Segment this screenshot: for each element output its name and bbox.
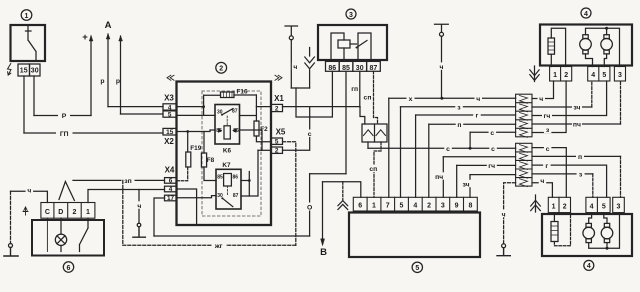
wire: pin4 riser bbox=[415, 115, 417, 197]
relay 3 pin 30 bbox=[353, 61, 367, 71]
svg-text:8: 8 bbox=[468, 202, 472, 209]
svg-text:C: C bbox=[45, 209, 50, 216]
unit 6 pin C internal stub bbox=[46, 218, 48, 251]
terminal T right bbox=[435, 24, 449, 32]
wire: horizontal to ground chevron bbox=[291, 87, 309, 89]
connector X4 pin 17 bbox=[165, 195, 177, 201]
wire: terminal down bbox=[290, 40, 292, 88]
svg-text:4: 4 bbox=[413, 202, 417, 209]
svg-text:р: р bbox=[116, 78, 120, 85]
connector X5 pin 5 bbox=[271, 138, 283, 144]
wire x-line: pin7 to upper stack bbox=[389, 97, 516, 99]
wire: F8 bottom to K7.85 bbox=[204, 167, 216, 181]
wire zhg line bbox=[123, 244, 296, 246]
svg-text:2: 2 bbox=[563, 203, 567, 210]
wire: lower stack cell1 to mirror2 pin 2 bbox=[532, 148, 566, 198]
svg-text:+: + bbox=[82, 32, 88, 43]
upper door connector stack bbox=[516, 94, 532, 137]
connector X3 pin 4 bbox=[163, 104, 177, 110]
fuse F2 bbox=[254, 121, 259, 136]
wire GP: to connector X2 pin 15 bbox=[24, 132, 163, 134]
wire: riser F16/X1.2/K6.87/F2 bbox=[255, 95, 257, 121]
wire: resistor top loop to pin 2 bbox=[551, 28, 565, 66]
svg-text:сп: сп bbox=[364, 94, 372, 101]
svg-text:х: х bbox=[409, 96, 413, 103]
wire: X3.5 to K6.30 bbox=[177, 114, 216, 116]
wire s-line upper branch bbox=[470, 131, 515, 133]
mirror unit 4 bottom body bbox=[542, 214, 632, 256]
wire: upper stack cell4 to mirror pin 3 bbox=[532, 123, 621, 125]
label ch on terminal wire bbox=[292, 62, 299, 69]
wire: pin8 line to lower stack bbox=[470, 174, 516, 176]
svg-text:F16: F16 bbox=[236, 88, 247, 95]
wire zhg riser from zp wire bbox=[122, 180, 124, 245]
wire: motor B bottom to pin 5 bbox=[604, 54, 606, 67]
svg-text:6: 6 bbox=[169, 178, 173, 185]
svg-text:5: 5 bbox=[168, 112, 172, 119]
svg-text:п: п bbox=[578, 154, 582, 161]
svg-text:зч: зч bbox=[573, 105, 580, 112]
wire: motor A top to pin 4 bbox=[589, 213, 592, 224]
unit 6 pin row C D 2 1 bbox=[41, 203, 95, 219]
svg-text:1: 1 bbox=[86, 209, 90, 216]
relay 3 contact blade bbox=[357, 41, 368, 48]
relay 3 coil bbox=[338, 40, 350, 48]
fuse F8 bbox=[201, 153, 206, 167]
svg-text:пч: пч bbox=[573, 122, 581, 129]
svg-text:ч: ч bbox=[137, 203, 141, 210]
svg-text:пч: пч bbox=[435, 174, 443, 181]
svg-text:4: 4 bbox=[584, 11, 588, 18]
wire: F19 bottom to X4.6 internal bbox=[177, 167, 188, 181]
svg-text:4: 4 bbox=[169, 186, 173, 193]
ignition switch unit 1: circled label bbox=[21, 10, 32, 21]
wire: F2 bottom to X5.5 bbox=[256, 136, 271, 142]
wire: bottom bus to pin 3 bbox=[589, 213, 620, 249]
svg-text:5: 5 bbox=[275, 139, 279, 146]
svg-text:с: с bbox=[308, 131, 312, 138]
relay K7 body bbox=[216, 169, 241, 209]
wire: bus tap to F19 top bbox=[187, 132, 189, 153]
relay K6 body bbox=[215, 105, 240, 145]
wire arrow r up from X3.5 bbox=[120, 36, 122, 114]
wire: pin5 riser bbox=[400, 107, 402, 198]
wire: X1.2 internal bbox=[256, 106, 271, 108]
terminal T left bbox=[285, 26, 298, 36]
wire: upper stack cell5 to mirror pin 2 bbox=[532, 81, 566, 133]
svg-text:X4: X4 bbox=[165, 166, 175, 175]
unit 6 lamp bbox=[55, 234, 66, 245]
wire: X3.4 to F16 riser bbox=[177, 106, 204, 108]
terminal arrow symbol left of pins bbox=[8, 64, 12, 76]
wire: K7.86 out to dot bbox=[241, 180, 249, 182]
wire: pin3 line to lower stack bbox=[443, 156, 515, 158]
wire R: pin 30 to + arrow bbox=[34, 115, 91, 117]
svg-text:5: 5 bbox=[415, 265, 419, 272]
connector X4 pin 6 bbox=[165, 178, 177, 184]
relay 3 pin 86 bbox=[326, 61, 340, 71]
wire: X1.2 external to block 30-wire bbox=[283, 106, 361, 108]
svg-text:зч: зч bbox=[463, 181, 470, 188]
wire: K6.87 out to F2 riser bbox=[240, 115, 257, 117]
unit 5 circled label bbox=[412, 262, 422, 272]
svg-text:1: 1 bbox=[553, 72, 557, 79]
wire: joint left cell bottom to s-line bbox=[367, 142, 369, 148]
heater switch unit 6: circled label bbox=[63, 262, 73, 272]
svg-text:зп: зп bbox=[124, 178, 131, 185]
wire: vertical through dot bbox=[248, 172, 250, 197]
svg-text:сп: сп bbox=[369, 166, 377, 173]
inner dashed module box bbox=[202, 91, 261, 216]
mirror bottom pins 1 2 bbox=[548, 197, 570, 212]
ground stub on pin1 wire bbox=[138, 190, 140, 224]
wire: lower stack cell5 to ch ground bbox=[504, 183, 516, 244]
svg-text:5: 5 bbox=[602, 72, 606, 79]
wire: relay pin 85 down bbox=[345, 71, 347, 173]
ground chevron top mirror bbox=[534, 66, 536, 82]
connector X2 pin 15 bbox=[163, 128, 177, 135]
break mark left of block 2 bbox=[167, 75, 174, 80]
relay unit 3: circled label bbox=[346, 9, 356, 19]
svg-text:ч: ч bbox=[502, 211, 506, 218]
svg-text:1: 1 bbox=[552, 203, 556, 210]
svg-text:п: п bbox=[457, 122, 461, 129]
wire: X4.17 external to line A bbox=[154, 198, 165, 236]
svg-text:7: 7 bbox=[386, 202, 390, 209]
svg-text:2: 2 bbox=[72, 209, 76, 216]
wire: pin 1 to X4.4 bbox=[88, 190, 165, 203]
ignition switch 1 body bbox=[11, 25, 46, 61]
svg-text:B: B bbox=[320, 247, 327, 258]
wire: pin8 riser bbox=[469, 175, 471, 198]
wire: X3.5 to arrow bbox=[121, 113, 164, 115]
svg-text:X3: X3 bbox=[164, 94, 174, 103]
svg-text:ч: ч bbox=[539, 96, 543, 103]
wire: lower stack cell4 to mirror2 pin 4 bbox=[532, 173, 593, 175]
relay 3 pin 85 bbox=[339, 61, 353, 71]
svg-text:30: 30 bbox=[31, 68, 39, 75]
mirror top motor B bbox=[601, 39, 613, 51]
switch unit 5 pin row bbox=[353, 197, 477, 211]
wire: F16 right to riser bbox=[234, 94, 256, 96]
wire: resistor top to pin 1 bbox=[553, 213, 555, 222]
ground chevron bottom mirror bbox=[535, 195, 537, 212]
svg-text:О: О bbox=[307, 205, 312, 212]
wire: resistor bottom loop to pin 2 bbox=[554, 213, 570, 246]
wire: riser F16-left bbox=[203, 95, 205, 115]
wire: upper stack cell2 to mirror pin 4 bbox=[532, 106, 592, 108]
svg-text:3: 3 bbox=[617, 203, 621, 210]
label R on wire bbox=[58, 112, 70, 120]
svg-text:X2: X2 bbox=[164, 137, 174, 146]
mirror unit 4 top body bbox=[540, 25, 632, 66]
relay K6 contact blade bbox=[222, 109, 233, 115]
label gp on wire 30 bbox=[351, 84, 360, 91]
wire: pin7 riser bbox=[388, 98, 390, 197]
wire: lower stack cell5 to mirror2 pin 1 bbox=[532, 183, 552, 198]
svg-text:15: 15 bbox=[20, 68, 28, 75]
wire s-line main: joint box to lower stack bbox=[368, 147, 516, 149]
svg-text:Р: Р bbox=[62, 113, 67, 120]
wire: jog into joint box left cell bbox=[360, 107, 365, 124]
wire: pin9 riser bbox=[456, 165, 458, 197]
relay 3 internal towers bbox=[331, 33, 371, 60]
fuse F16 bbox=[221, 92, 235, 98]
mirror unit 4 bottom: circled label bbox=[584, 260, 594, 270]
svg-text:9: 9 bbox=[455, 202, 459, 209]
relay K6 coil bbox=[224, 126, 230, 139]
joint box (wire splice pair) bbox=[362, 124, 387, 142]
lower door connector stack bbox=[516, 143, 532, 186]
unit 6 zigzag lead into pin 2 bbox=[59, 182, 74, 201]
label sp upper bbox=[363, 93, 373, 100]
connector X5 pin 2 bbox=[271, 147, 283, 153]
mirror bottom heater resistor bbox=[551, 222, 558, 242]
ignition switch 1 contact symbol bbox=[26, 26, 37, 61]
label zch bbox=[461, 180, 471, 187]
wire: B continuation arrow bbox=[322, 182, 324, 240]
svg-text:15: 15 bbox=[166, 129, 174, 136]
svg-text:с: с bbox=[546, 146, 550, 153]
mirror bottom pins 4 5 3 bbox=[586, 197, 624, 212]
svg-text:4: 4 bbox=[591, 72, 595, 79]
svg-text:3: 3 bbox=[349, 12, 353, 19]
wire: lower stack cell3 to mirror2 pin 5 bbox=[532, 165, 607, 197]
wire: X5.2 riser down to K7 bottom bbox=[241, 150, 258, 196]
unit 6 body bbox=[32, 220, 104, 256]
svg-text:87: 87 bbox=[232, 109, 238, 115]
svg-text:4: 4 bbox=[587, 263, 591, 270]
wire: pin6 feed bbox=[323, 182, 361, 198]
svg-text:ч: ч bbox=[27, 188, 31, 195]
junction dot X3.4 riser bbox=[202, 105, 205, 108]
wire: pin3 riser bbox=[442, 157, 444, 198]
svg-text:г: г bbox=[475, 113, 478, 120]
wire: K6.86 out down to X5.2 line bbox=[240, 130, 263, 150]
label O bbox=[306, 203, 314, 211]
connector X1 pin 2 bbox=[271, 104, 283, 111]
wire: X4.4 internal down bbox=[177, 189, 197, 225]
wire: X2.15 bus to K6.85 bbox=[177, 130, 216, 132]
relay 3 pin 87 bbox=[367, 61, 381, 71]
junction dot K7.86 bbox=[248, 179, 251, 182]
svg-text:2: 2 bbox=[219, 66, 223, 73]
label pch bbox=[434, 172, 444, 179]
wire: X5.5 external down bbox=[283, 142, 296, 245]
wire: riser top to F16 bbox=[204, 94, 221, 96]
terminal arrow symbol left of unit 6 bbox=[23, 207, 28, 215]
svg-text:17: 17 bbox=[167, 195, 175, 202]
svg-text:ч: ч bbox=[440, 64, 444, 71]
svg-text:гч: гч bbox=[544, 113, 551, 120]
mounting block 2 body bbox=[177, 82, 272, 226]
relay K7 contact blade bbox=[222, 198, 233, 206]
svg-text:5: 5 bbox=[602, 203, 606, 210]
fuse F19 bbox=[186, 152, 191, 167]
wire: joint right cell bottom to pin 1 of unit 5 bbox=[374, 142, 381, 197]
mirror top motor A bbox=[580, 39, 592, 51]
wire: bus tap to F8 top bbox=[203, 132, 205, 154]
wire g-line: pin4 to upper stack bbox=[416, 114, 516, 116]
svg-text:F8: F8 bbox=[207, 157, 215, 164]
junction dot F19 tap bbox=[186, 130, 189, 133]
svg-text:6: 6 bbox=[67, 265, 71, 272]
svg-text:X5: X5 bbox=[276, 128, 286, 137]
wire arrow + up bbox=[90, 36, 92, 116]
relay K6 pin arrows bbox=[219, 129, 237, 133]
label s on X5.2 riser bbox=[306, 130, 314, 137]
ground chevron mid (body symbol) bbox=[309, 48, 311, 89]
wire: X4.17 internal to K7.30 bbox=[177, 196, 217, 198]
svg-text:с: с bbox=[446, 146, 450, 153]
label ch on right terminal wire bbox=[438, 62, 445, 69]
svg-text:гп: гп bbox=[351, 86, 358, 93]
svg-text:4: 4 bbox=[590, 203, 594, 210]
svg-text:г: г bbox=[545, 163, 548, 170]
mirror bottom motor A bbox=[583, 227, 595, 239]
wire p-line: pin2 to upper stack bbox=[429, 123, 516, 125]
svg-text:ГП: ГП bbox=[60, 131, 69, 138]
svg-text:с: с bbox=[491, 146, 495, 153]
wire: relay pin 30 down bbox=[359, 71, 361, 106]
svg-text:2: 2 bbox=[275, 106, 279, 113]
wire: relay85 corridor bbox=[310, 173, 346, 175]
connector X3 pin 5 bbox=[163, 111, 177, 117]
wire: motor top bus to pin 3 bbox=[586, 28, 620, 66]
svg-text:2: 2 bbox=[427, 202, 431, 209]
mirror bottom motor B bbox=[601, 227, 613, 239]
unit 6 switch contact bbox=[80, 218, 89, 251]
svg-text:2: 2 bbox=[564, 72, 568, 79]
svg-text:K6: K6 bbox=[223, 147, 232, 154]
svg-text:1: 1 bbox=[25, 13, 29, 20]
wire: resistor bottom to pin 1 bbox=[550, 54, 552, 66]
relay K7 coil bbox=[224, 174, 232, 187]
wire: pin C to ground bbox=[11, 191, 48, 202]
wire: pin2 riser bbox=[428, 124, 430, 197]
svg-text:K7: K7 bbox=[222, 162, 231, 169]
svg-text:ч: ч bbox=[540, 178, 544, 185]
mirror top heater resistor bbox=[548, 38, 555, 54]
svg-text:ч: ч bbox=[293, 64, 297, 71]
ignition switch pin 15 bbox=[18, 64, 30, 76]
svg-text:A: A bbox=[105, 20, 112, 31]
wire: O riser bbox=[309, 174, 311, 236]
wire z-line: pin5 to upper stack bbox=[401, 106, 516, 108]
wire gch-line: pin9 to lower stack bbox=[457, 164, 516, 166]
svg-text:1: 1 bbox=[372, 202, 376, 209]
svg-text:гч: гч bbox=[488, 163, 495, 170]
svg-text:85: 85 bbox=[217, 175, 223, 181]
svg-text:ч: ч bbox=[476, 96, 480, 103]
wire: motor B top to pin 5 bbox=[604, 213, 607, 224]
wire: upper stack cell1 to mirror pin 1 bbox=[532, 81, 554, 99]
wire: X5.2 internal bbox=[258, 149, 271, 151]
wire: upper stack cell3 to mirror pin 5 bbox=[532, 81, 607, 116]
svg-text:F19: F19 bbox=[190, 145, 201, 152]
wire: relay pin 87 down dashed to junction box bbox=[374, 71, 378, 124]
wire zp: zigzag top to X4.6 bbox=[73, 179, 165, 181]
wire: lower stack cell2 to mirror2 pin 3 bbox=[532, 155, 621, 157]
wire line A bbox=[154, 235, 310, 237]
wire: X5.2 external riser bbox=[283, 107, 310, 150]
svg-text:3: 3 bbox=[618, 72, 622, 79]
svg-text:2: 2 bbox=[275, 148, 279, 155]
svg-text:с: с bbox=[490, 130, 494, 137]
ground chevron tap for pin6 wire bbox=[342, 182, 344, 200]
break mark right of block 2 bbox=[275, 75, 282, 80]
wire arrow A up from X3.4 bbox=[107, 34, 109, 107]
wire: X3.4 to arrow A bbox=[108, 106, 163, 108]
wire: staircase to relay pin 86 bbox=[296, 71, 332, 117]
svg-text:жг: жг bbox=[214, 243, 223, 250]
label sp lower bbox=[369, 165, 379, 172]
svg-text:5: 5 bbox=[400, 202, 404, 209]
wire: right terminal down to x-line bbox=[441, 36, 443, 98]
mirror top pins 4 5 3 bbox=[588, 67, 626, 82]
svg-text:X1: X1 bbox=[274, 94, 284, 103]
wire: pin 30 down bbox=[33, 76, 35, 116]
ignition switch pin 30 bbox=[30, 64, 41, 76]
switch unit 5 body bbox=[349, 213, 480, 258]
mirror unit 4 top: circled label bbox=[581, 8, 591, 18]
svg-text:6: 6 bbox=[358, 202, 362, 209]
svg-text:86: 86 bbox=[233, 175, 239, 181]
mounting block unit 2: circled label bbox=[216, 62, 227, 73]
wire: motor A bottom to pin 4 bbox=[586, 54, 593, 67]
svg-text:D: D bbox=[58, 209, 63, 216]
svg-text:87: 87 bbox=[233, 193, 239, 199]
connector X4 pin 4 bbox=[165, 186, 177, 192]
svg-text:3: 3 bbox=[441, 202, 445, 209]
relay 3 body bbox=[318, 25, 387, 60]
label GP on wire bbox=[56, 129, 73, 137]
mirror top pins 1 2 bbox=[550, 67, 572, 82]
svg-text:р: р bbox=[100, 78, 104, 85]
wire: pin 15 to GP bus bbox=[23, 76, 25, 133]
